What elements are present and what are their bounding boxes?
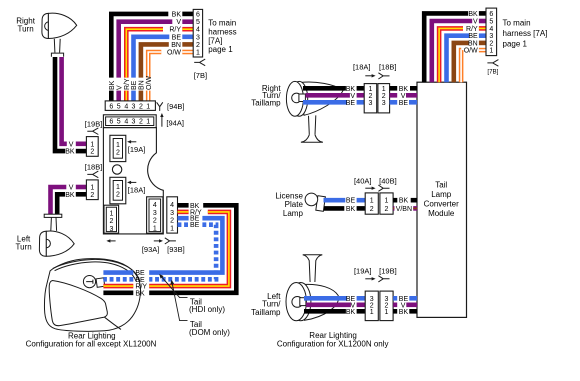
wire R/Y tail lamp loop [149, 212, 229, 286]
wire BE dashed tail (DOM) loop [149, 225, 216, 280]
arrow below connector 1-2-3 [110, 240, 116, 242]
svg-text:Configuration for XL1200N only: Configuration for XL1200N only [277, 339, 389, 348]
wire stub V into 19B [76, 142, 87, 147]
svg-text:4: 4 [196, 27, 200, 34]
svg-text:6: 6 [196, 11, 200, 18]
wire BK tail lamp loop [149, 205, 236, 292]
connector 7B (right diagram) [486, 8, 497, 56]
svg-text:BK: BK [109, 80, 116, 90]
fork symbol connector 19B [87, 128, 98, 135]
svg-text:4: 4 [124, 103, 128, 110]
arrow connector 18A (right) [365, 75, 372, 77]
svg-text:Tail: Tail [435, 180, 447, 189]
svg-text:V: V [401, 93, 406, 100]
arrow connector 94A [161, 117, 163, 127]
svg-text:5: 5 [196, 19, 200, 26]
svg-text:6: 6 [109, 103, 113, 110]
svg-text:Configuration for all except X: Configuration for all except XL1200N [26, 340, 157, 349]
svg-text:5: 5 [117, 103, 121, 110]
svg-text:[18B]: [18B] [379, 63, 397, 72]
wire V module to 7B (right diagram) [432, 21, 472, 82]
wire O/W to connector 7B (left diagram) [148, 52, 161, 78]
svg-text:To main: To main [208, 19, 236, 28]
svg-text:[18A]: [18A] [353, 63, 371, 72]
svg-text:1: 1 [146, 119, 150, 126]
svg-text:page 1: page 1 [208, 45, 233, 54]
svg-text:2: 2 [382, 93, 386, 100]
connector 19B (right) [380, 291, 393, 321]
fork symbol connector 94B [157, 102, 163, 111]
connector 93A [147, 197, 163, 233]
svg-text:BN: BN [171, 42, 181, 49]
svg-text:BK: BK [399, 198, 409, 205]
fork symbol connector 93B [165, 238, 176, 244]
wire stub BK out of 40B [393, 198, 397, 203]
svg-text:2: 2 [196, 42, 200, 49]
connector 94B [105, 101, 155, 111]
wire stubs out of 18B [390, 86, 398, 91]
wire stub R/Y from 93B [178, 210, 189, 215]
fork symbol connector 19B (right) [378, 276, 389, 282]
svg-text:O/W: O/W [464, 48, 478, 55]
svg-text:2: 2 [90, 192, 94, 199]
right turn lamp icon [42, 13, 77, 57]
svg-text:[18A]: [18A] [128, 185, 146, 194]
connector 19A [110, 135, 126, 161]
wire stub BK into 18B [76, 192, 87, 197]
wire BK right turn lamp [55, 57, 65, 151]
svg-text:[93A]: [93A] [142, 245, 160, 254]
svg-text:BE: BE [468, 33, 478, 40]
svg-text:2: 2 [370, 206, 374, 213]
svg-text:V: V [69, 185, 74, 192]
wire R/Y to connector 7B (left diagram) [126, 29, 163, 77]
svg-text:[40A]: [40A] [354, 177, 372, 186]
wire BE right taillamp [303, 100, 347, 105]
wire V left taillamp [306, 302, 351, 307]
wire stubs into connector 7B (right) [479, 11, 486, 16]
svg-text:R/Y: R/Y [169, 27, 181, 34]
svg-text:1: 1 [382, 86, 386, 93]
svg-text:BN: BN [139, 80, 146, 90]
wire BE solid tail (HDI) left segment [103, 270, 133, 275]
svg-text:3: 3 [132, 103, 136, 110]
svg-text:2: 2 [368, 93, 372, 100]
connector 40B [380, 193, 393, 214]
svg-text:BK: BK [346, 309, 356, 316]
arrow connector 40A [365, 187, 372, 189]
license plate lamp icon [305, 193, 325, 211]
svg-text:V: V [69, 141, 74, 148]
wire BN module to 7B (right diagram) [454, 43, 469, 82]
wire BK into module (license) [411, 198, 417, 203]
connector 94A [103, 115, 156, 128]
svg-text:3: 3 [170, 210, 174, 217]
svg-text:1: 1 [368, 86, 372, 93]
svg-text:2: 2 [153, 218, 157, 225]
wires BE V BK into module (left turn) [409, 296, 417, 301]
svg-text:[19B]: [19B] [85, 119, 103, 128]
svg-text:3: 3 [489, 33, 493, 40]
svg-text:1: 1 [170, 225, 174, 232]
svg-text:O/W: O/W [146, 76, 153, 90]
svg-text:(DOM only): (DOM only) [189, 328, 230, 337]
svg-text:3: 3 [382, 100, 386, 107]
connector 18A [110, 177, 126, 204]
wire stubs into connector 7B (left) [182, 12, 193, 17]
wire BE to connector 7B (left diagram) [134, 37, 170, 78]
wire BE left taillamp [304, 296, 347, 301]
right turn taillamp icon [286, 81, 343, 142]
svg-text:1: 1 [90, 141, 94, 148]
svg-text:V: V [116, 85, 123, 90]
arrow connector 19A (right) [365, 278, 372, 280]
svg-text:V: V [176, 19, 181, 26]
rear lighting harness body outline [103, 128, 163, 234]
svg-text:BK: BK [468, 11, 478, 18]
svg-text:4: 4 [124, 119, 128, 126]
svg-text:R/Y: R/Y [124, 78, 131, 90]
svg-text:4: 4 [489, 26, 493, 33]
svg-text:BE: BE [346, 198, 356, 205]
wire V/BN into module (license) [413, 206, 417, 211]
svg-text:BK: BK [65, 192, 75, 199]
wire BN to connector 7B (left diagram) [141, 44, 169, 77]
svg-text:2: 2 [116, 150, 120, 157]
svg-text:BE: BE [190, 222, 200, 229]
svg-text:2: 2 [385, 206, 389, 213]
svg-text:3: 3 [132, 119, 136, 126]
svg-text:2: 2 [139, 103, 143, 110]
svg-text:R/Y: R/Y [466, 26, 478, 33]
svg-text:1: 1 [109, 210, 113, 217]
svg-text:Taillamp: Taillamp [251, 99, 281, 108]
svg-text:[94B]: [94B] [167, 102, 185, 111]
svg-text:BK: BK [399, 86, 409, 93]
connector 93B [167, 197, 178, 233]
connector 19A (right) [365, 291, 378, 321]
svg-text:2: 2 [489, 40, 493, 47]
svg-text:V: V [473, 19, 478, 26]
wire BK left turn lamp [57, 194, 65, 214]
wire BE module to 7B (right diagram) [447, 36, 470, 82]
wires BK V BE into module (right turn) [410, 86, 417, 91]
svg-text:BK: BK [346, 206, 356, 213]
connector 7B (left diagram) [193, 9, 202, 57]
svg-text:(HDI only): (HDI only) [189, 305, 225, 314]
svg-text:1: 1 [196, 50, 200, 57]
wire stub BE from 93B [178, 216, 189, 221]
connector 18B [86, 180, 98, 200]
fork symbol connector 18B (right) [378, 73, 389, 79]
tail lamp bulb [83, 276, 104, 288]
wire V right turn lamp [62, 57, 67, 144]
svg-text:2: 2 [90, 149, 94, 156]
arrow connector 18A [131, 181, 137, 183]
tail lamp assembly housing [44, 259, 140, 332]
svg-text:5: 5 [489, 19, 493, 26]
wire stub V into 18B [76, 185, 87, 190]
svg-text:1: 1 [370, 309, 374, 316]
svg-text:2: 2 [170, 218, 174, 225]
svg-text:2: 2 [116, 192, 120, 199]
svg-text:Converter: Converter [424, 200, 459, 209]
svg-text:5: 5 [117, 119, 121, 126]
wire stub BE dashed from 93B [178, 222, 189, 227]
svg-text:2: 2 [109, 218, 113, 225]
wire BK right taillamp [303, 86, 346, 91]
svg-text:BK: BK [172, 11, 182, 18]
svg-text:1: 1 [370, 198, 374, 205]
svg-text:Turn: Turn [18, 24, 34, 33]
svg-text:[19B]: [19B] [379, 267, 397, 276]
svg-text:BN: BN [468, 40, 478, 47]
svg-text:V: V [350, 93, 355, 100]
svg-text:BK: BK [346, 86, 356, 93]
svg-text:[7B]: [7B] [487, 68, 498, 75]
svg-text:1: 1 [153, 225, 157, 232]
wire stub BK into 19B [76, 149, 87, 154]
svg-text:[19A]: [19A] [354, 267, 372, 276]
fork symbol connector 18B [87, 171, 98, 178]
wire BE license lamp [324, 198, 346, 203]
fork symbol connector 7B (right) [487, 60, 498, 67]
connector 40A [365, 193, 378, 214]
svg-text:1: 1 [385, 198, 389, 205]
svg-text:2: 2 [139, 119, 143, 126]
svg-text:BE: BE [131, 80, 138, 90]
svg-text:BE: BE [346, 100, 356, 107]
svg-text:1: 1 [489, 48, 493, 55]
wire stub V/BN out of 40B [393, 206, 394, 211]
wire V left turn lamp [51, 187, 67, 215]
wire BK license lamp [324, 206, 344, 211]
connector 18A (right) [364, 84, 377, 113]
svg-text:[94A]: [94A] [166, 118, 184, 127]
svg-text:O/W: O/W [167, 50, 181, 57]
svg-text:[40B]: [40B] [379, 177, 397, 186]
leader line Tail HDI only [160, 275, 187, 297]
svg-text:1: 1 [90, 185, 94, 192]
svg-text:Turn: Turn [16, 242, 32, 251]
wire stubs into 40A [357, 198, 366, 203]
wire BK right-turn harness to connector 7B (left diagram) [111, 14, 168, 78]
fork symbol connector 7B (left) [194, 59, 205, 66]
wire R/Y tail lamp loop left segment [103, 284, 133, 289]
wire stubs into 18A [357, 86, 365, 91]
svg-text:harness: harness [208, 28, 236, 37]
svg-text:page 1: page 1 [503, 40, 528, 49]
svg-text:6: 6 [109, 119, 113, 126]
svg-text:3: 3 [196, 34, 200, 41]
wire BK left taillamp [304, 309, 346, 314]
wire BE solid tail (HDI) loop [149, 218, 222, 272]
svg-text:[18B]: [18B] [85, 163, 103, 172]
leader line Tail DOM only [172, 282, 188, 321]
svg-text:6: 6 [489, 11, 493, 18]
svg-text:3: 3 [153, 210, 157, 217]
tail lamp converter module [417, 82, 467, 317]
svg-text:[93B]: [93B] [167, 245, 185, 254]
arrow connector 19A [131, 141, 137, 143]
svg-text:Module: Module [428, 209, 455, 218]
svg-text:harness [7A]: harness [7A] [503, 29, 548, 38]
svg-text:1: 1 [116, 184, 120, 191]
wire V right taillamp [306, 93, 350, 98]
left turn lamp icon [39, 214, 74, 256]
svg-text:1: 1 [116, 142, 120, 149]
svg-text:To main: To main [503, 19, 531, 28]
mounting hole circle [112, 165, 121, 174]
svg-text:BE: BE [399, 100, 409, 107]
wire stubs into connector 94B [109, 91, 114, 101]
fork symbol connector 40B [378, 185, 389, 191]
wire BK tail lamp loop left segment [103, 290, 133, 295]
wire stubs into 19A (right) [357, 296, 366, 301]
svg-text:1: 1 [385, 309, 389, 316]
svg-text:BK: BK [135, 290, 145, 297]
wire R/Y module to 7B (right diagram) [439, 28, 463, 82]
svg-text:Taillamp: Taillamp [251, 308, 281, 317]
wire O/W module to 7B (right diagram) [459, 50, 464, 82]
connector 1-2-3 (tail lamp feed) [104, 205, 119, 233]
svg-text:BE: BE [172, 34, 182, 41]
svg-text:[19A]: [19A] [128, 145, 146, 154]
svg-text:[7B]: [7B] [194, 71, 207, 80]
arrow connector 93A [154, 240, 160, 242]
svg-text:BK: BK [399, 309, 409, 316]
connector 18B (right) [378, 84, 390, 113]
svg-text:4: 4 [170, 202, 174, 209]
svg-text:V/BN: V/BN [396, 206, 412, 213]
wire V to connector 7B (left diagram) [119, 22, 173, 78]
svg-text:BK: BK [65, 149, 75, 156]
svg-text:Lamp: Lamp [283, 209, 304, 218]
svg-text:1: 1 [146, 103, 150, 110]
left turn taillamp icon (right diagram) [286, 255, 339, 321]
wire stub BK from 93B [178, 203, 189, 208]
svg-text:3: 3 [368, 100, 372, 107]
wire BK module to 7B (right diagram) [424, 13, 468, 82]
svg-text:3: 3 [109, 226, 113, 233]
svg-text:[7A]: [7A] [208, 36, 222, 45]
wire BE dashed tail (DOM) left segment [103, 277, 133, 282]
wire stubs out of 19B (right) [393, 296, 397, 301]
svg-text:4: 4 [153, 202, 157, 209]
svg-text:Lamp: Lamp [431, 190, 452, 199]
connector 19B [86, 137, 98, 157]
